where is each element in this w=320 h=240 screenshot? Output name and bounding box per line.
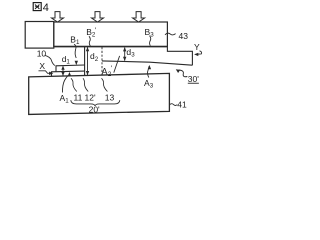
svg-text:3: 3 xyxy=(150,32,154,39)
svg-text:10: 10 xyxy=(37,48,47,58)
svg-text:Y: Y xyxy=(194,42,200,52)
svg-text:': ' xyxy=(111,65,112,72)
svg-text:4: 4 xyxy=(43,2,49,14)
svg-text:41: 41 xyxy=(177,100,187,110)
svg-text:20': 20' xyxy=(89,104,100,114)
svg-text:3: 3 xyxy=(150,82,154,89)
svg-text:': ' xyxy=(95,28,96,35)
svg-text:2: 2 xyxy=(95,56,99,63)
svg-text:1: 1 xyxy=(65,97,69,104)
svg-text:1: 1 xyxy=(76,39,80,46)
svg-text:43: 43 xyxy=(179,31,189,41)
svg-text:30': 30' xyxy=(188,74,199,84)
svg-text:11: 11 xyxy=(74,92,83,102)
svg-text:X: X xyxy=(39,61,45,71)
svg-text:12': 12' xyxy=(85,92,96,102)
svg-text:A: A xyxy=(102,67,108,77)
svg-text:13: 13 xyxy=(105,92,115,102)
svg-text:1: 1 xyxy=(66,58,70,65)
svg-text:3: 3 xyxy=(131,51,135,58)
